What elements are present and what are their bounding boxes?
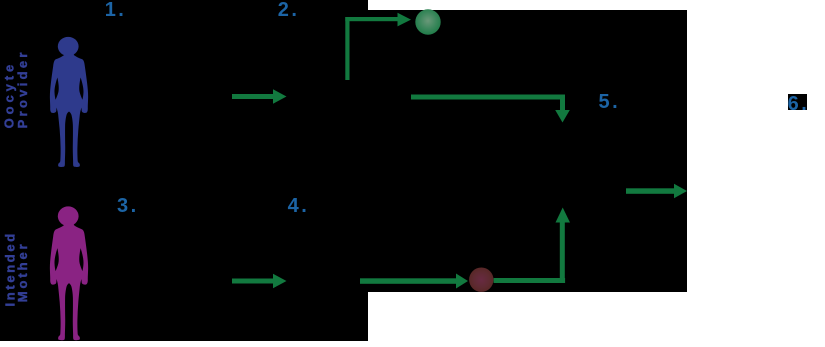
- svg-text:5.: 5.: [599, 91, 621, 113]
- green sphere (healthy nucleus): [415, 9, 440, 34]
- svg-text:3.: 3.: [117, 195, 139, 217]
- arrow A3: right then down into step 5 area: [411, 95, 570, 123]
- arrow A1: provider to step 2: [232, 89, 287, 103]
- woman silhouette: oocyte provider (blue): [50, 37, 88, 167]
- label Oocyte Provider: [1, 49, 29, 128]
- arrow A4: step 5 to step 6: [626, 184, 687, 198]
- arrow A2: elbow up to green sphere: [345, 13, 411, 80]
- svg-text:4.: 4.: [288, 195, 310, 217]
- label Intended Mother: [3, 231, 31, 306]
- svg-text:2.: 2.: [278, 0, 300, 21]
- svg-text:Mother: Mother: [15, 241, 30, 302]
- svg-text:6.: 6.: [788, 93, 810, 115]
- svg-text:1.: 1.: [105, 0, 127, 21]
- arrow A5: mother to step 4: [232, 274, 287, 288]
- black box behind 6.: [788, 94, 807, 110]
- woman silhouette: intended mother (purple): [50, 206, 88, 340]
- svg-text:Provider: Provider: [15, 49, 30, 128]
- maroon sphere (affected nucleus): [469, 268, 493, 292]
- arrow A7: from sphere up toward step 5: [494, 208, 570, 284]
- arrow A6: into maroon sphere: [360, 274, 468, 289]
